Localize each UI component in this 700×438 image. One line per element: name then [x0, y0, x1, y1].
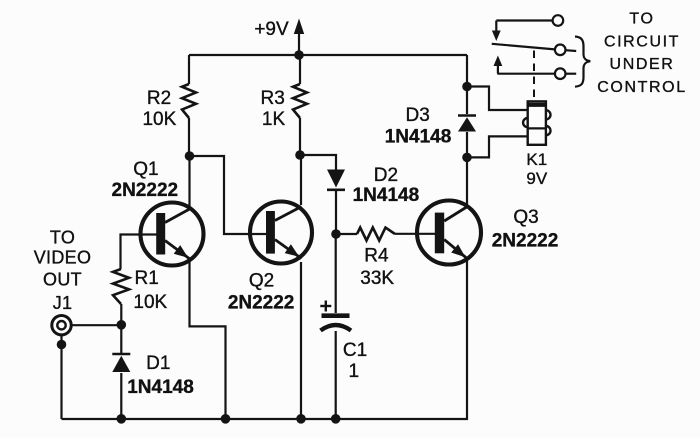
svg-text:TO: TO	[629, 11, 654, 28]
svg-text:OUT: OUT	[43, 270, 82, 290]
svg-text:2N2222: 2N2222	[228, 293, 295, 314]
svg-text:1N4148: 1N4148	[385, 127, 452, 148]
svg-text:+9V: +9V	[254, 19, 289, 40]
svg-text:R4: R4	[364, 245, 389, 266]
svg-text:C1: C1	[343, 340, 367, 361]
svg-text:K1: K1	[526, 150, 547, 169]
svg-text:Q1: Q1	[133, 159, 158, 180]
svg-text:TO: TO	[50, 228, 75, 248]
svg-text:D1: D1	[146, 353, 170, 374]
svg-text:CIRCUIT: CIRCUIT	[604, 33, 680, 50]
svg-text:VIDEO: VIDEO	[34, 248, 92, 268]
svg-text:9V: 9V	[526, 169, 547, 188]
svg-text:2N2222: 2N2222	[492, 231, 559, 252]
svg-text:R3: R3	[261, 88, 285, 109]
svg-text:UNDER: UNDER	[610, 56, 675, 73]
svg-text:1N4148: 1N4148	[127, 377, 194, 398]
svg-text:1: 1	[349, 361, 360, 382]
svg-text:1N4148: 1N4148	[353, 185, 420, 206]
svg-text:R2: R2	[147, 88, 171, 109]
svg-text:D3: D3	[406, 105, 430, 126]
svg-text:33K: 33K	[360, 268, 394, 289]
svg-text:R1: R1	[135, 268, 159, 289]
svg-text:10K: 10K	[142, 109, 176, 130]
svg-text:10K: 10K	[133, 292, 167, 313]
svg-text:1K: 1K	[262, 109, 286, 130]
svg-text:Q3: Q3	[513, 207, 538, 228]
svg-text:Q2: Q2	[249, 271, 274, 292]
svg-text:J1: J1	[53, 293, 73, 313]
svg-text:2N2222: 2N2222	[112, 180, 179, 201]
svg-text:D2: D2	[374, 165, 398, 186]
svg-text:CONTROL: CONTROL	[597, 79, 686, 96]
